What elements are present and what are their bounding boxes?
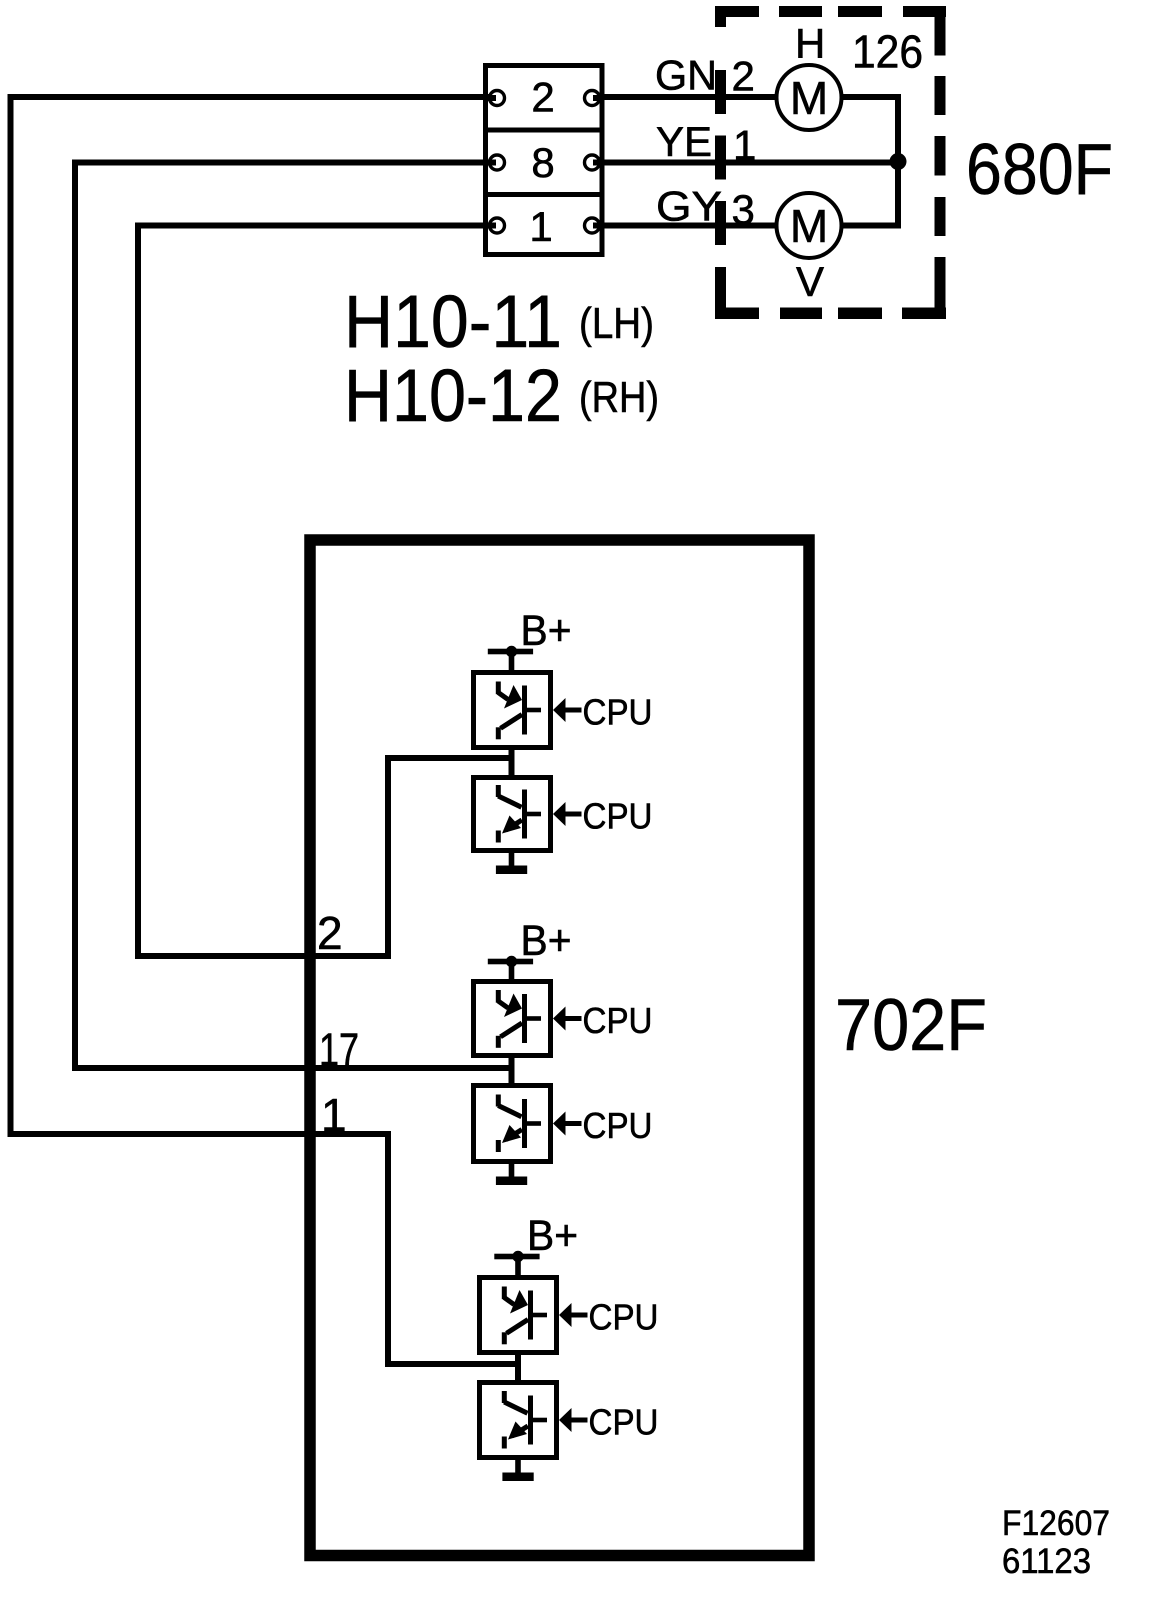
CPU input arrow Q1 (553, 698, 582, 722)
pin 8 terminal left (490, 155, 505, 170)
ground group 3 (502, 1460, 533, 1481)
B+ supply group 1 (488, 646, 533, 671)
B+ supply group 3 (494, 1251, 539, 1276)
wire GN pin2 to motor H (592, 94, 776, 100)
pin 2 terminal right (585, 91, 600, 106)
svg-text:2: 2 (732, 53, 755, 100)
svg-text:H10-12: H10-12 (344, 354, 562, 437)
svg-text:GN: GN (655, 52, 717, 99)
wire YE pin8 to junction (592, 160, 898, 166)
svg-text:1: 1 (529, 203, 552, 250)
svg-text:61123: 61123 (1002, 1542, 1091, 1581)
svg-text:CPU: CPU (583, 1000, 653, 1041)
connector H10-11/H10-12 body (486, 66, 603, 255)
dashed box 680F right border (935, 6, 946, 319)
svg-text:1: 1 (733, 122, 756, 169)
svg-text:17: 17 (319, 1024, 359, 1076)
svg-text:H10-11: H10-11 (344, 280, 562, 363)
svg-text:126: 126 (852, 26, 923, 78)
wire pin2 to CPU input 1 (11, 97, 519, 1364)
svg-text:(LH): (LH) (579, 299, 654, 348)
svg-text:F12607: F12607 (1002, 1504, 1110, 1543)
svg-text:M: M (790, 72, 828, 124)
dashed box 680F top border (715, 6, 946, 17)
svg-text:H: H (795, 20, 825, 67)
svg-text:2: 2 (317, 907, 343, 959)
svg-text:B+: B+ (521, 608, 572, 655)
svg-text:B+: B+ (527, 1213, 578, 1260)
svg-text:CPU: CPU (583, 796, 653, 837)
transistor driver Q4 (low side) (474, 1086, 551, 1162)
svg-text:GY: GY (656, 183, 722, 230)
svg-text:CPU: CPU (583, 1105, 653, 1146)
junction wire Q1-Q2 (509, 750, 515, 775)
junction wire Q3-Q4 (509, 1058, 515, 1083)
transistor driver Q2 (low side) (474, 778, 551, 851)
pin 8 terminal right (585, 155, 600, 170)
pin 2 terminal left (490, 91, 505, 106)
pin 1 terminal left (490, 218, 505, 233)
svg-text:CPU: CPU (589, 1297, 659, 1338)
label H10-11 (LH) (344, 280, 654, 363)
wire motor V to common (842, 163, 898, 226)
CPU input arrow Q3 (553, 1007, 582, 1031)
B+ supply group 2 (488, 956, 533, 981)
svg-text:YE: YE (656, 118, 712, 165)
svg-text:V: V (796, 258, 824, 305)
CPU input arrow Q4 (553, 1112, 582, 1136)
motor V (126) (777, 193, 842, 258)
wire pin1 to CPU input 2 (138, 226, 512, 957)
svg-text:2: 2 (531, 74, 554, 121)
ground group 1 (496, 853, 527, 874)
dashed box 680F bottom border (715, 308, 946, 320)
svg-text:M: M (790, 200, 828, 252)
wire pin8 to CPU input 17 (75, 163, 512, 1069)
ECU box 702F (310, 540, 809, 1556)
junction wire Q5-Q6 (515, 1355, 521, 1380)
wire GY pin1 to motor V (592, 223, 776, 229)
junction dot (890, 153, 907, 170)
CPU input arrow Q2 (553, 802, 582, 826)
motor H (126) (777, 65, 842, 130)
svg-text:3: 3 (732, 186, 755, 233)
svg-text:(RH): (RH) (579, 373, 659, 422)
svg-text:680F: 680F (966, 130, 1113, 210)
transistor driver Q1 (high side) (474, 673, 551, 748)
connector divider 2 (483, 192, 603, 197)
pin 1 terminal right (585, 218, 600, 233)
transistor driver Q3 (high side) (474, 982, 551, 1056)
CPU input arrow Q6 (559, 1408, 588, 1432)
dashed box 680F left border (715, 6, 726, 319)
label H10-12 (RH) (344, 354, 659, 437)
svg-text:1: 1 (321, 1089, 347, 1141)
svg-text:8: 8 (531, 139, 554, 186)
svg-text:CPU: CPU (589, 1402, 659, 1443)
CPU input arrow Q5 (559, 1303, 588, 1327)
pin wire nubs (487, 98, 602, 226)
transistor driver Q6 (low side) (480, 1383, 557, 1458)
svg-text:CPU: CPU (583, 692, 653, 733)
transistor driver Q5 (high side) (480, 1278, 557, 1353)
wire motor H to common (842, 97, 898, 163)
svg-text:702F: 702F (835, 985, 987, 1066)
svg-text:B+: B+ (521, 918, 572, 965)
ground group 2 (496, 1164, 527, 1185)
connector divider 1 (483, 128, 603, 133)
